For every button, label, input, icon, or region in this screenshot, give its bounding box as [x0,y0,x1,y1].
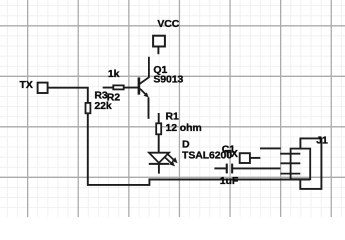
LED D emission arrow 2 [164,157,175,167]
svg-text:TX: TX [225,148,238,160]
power port VCC [153,36,165,47]
transistor Q1 [139,57,149,98]
resistor R3 [86,103,91,113]
svg-text:1k: 1k [108,68,120,80]
wire J1 pin 2 [281,162,301,164]
wire into R1 top [158,113,160,123]
connector J1 body [291,149,311,180]
wire TX right port lead [250,157,261,159]
svg-text:1uF: 1uF [220,175,239,187]
connector J1 shroud bracket [300,138,321,189]
LED D anode triangle [149,153,169,163]
capacitor C1 [226,164,234,174]
svg-text:TX: TX [20,79,33,91]
svg-text:R2: R2 [107,92,120,104]
wire VCC port lead [157,47,159,54]
wire C1 right lead toward J1 [233,167,281,169]
wire C1 left lead [214,167,226,169]
wire LED cathode lead [158,164,160,174]
resistor R2 [113,85,123,89]
svg-text:J1: J1 [316,134,328,146]
svg-text:12 ohm: 12 ohm [166,122,202,134]
wire TX port to R3 node [48,88,88,103]
wire R3 bottom to bottom rail and up to net at J1 [88,113,310,185]
wire J1 pin 1 [280,153,300,155]
LED D cathode bar [149,163,169,165]
wire segment toward J1 pin 1 [260,147,281,149]
wire R1 bottom to LED anode [158,134,160,152]
port TX right [240,153,250,163]
port TX [38,83,48,93]
LED D emission arrow 1 [167,153,178,163]
svg-text:S9013: S9013 [153,74,183,86]
wire emitter of Q1 down [148,98,150,119]
wire base of Q1 from R2 [103,87,139,89]
svg-text:R1: R1 [166,110,179,122]
resistor R1 [156,123,161,134]
wire J1 pin 3 [281,173,301,175]
svg-text:VCC: VCC [157,18,179,30]
